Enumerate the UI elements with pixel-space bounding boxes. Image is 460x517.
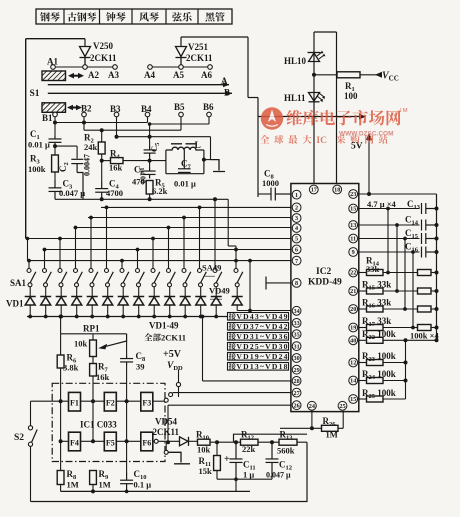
contact B5 [179, 112, 184, 117]
junction bus end [435, 338, 439, 342]
wire [383, 290, 418, 292]
IC2 pin 19 [349, 323, 358, 332]
label all 2CK11 [144, 333, 186, 343]
svg-text:A6: A6 [201, 70, 212, 80]
svg-text:......: ...... [210, 293, 222, 302]
svg-text:0.047 μ: 0.047 μ [59, 188, 85, 198]
wire A4-A6 row [150, 66, 210, 68]
svg-text:31: 31 [294, 343, 300, 350]
svg-text:15: 15 [350, 206, 356, 213]
wire RP1-R7 [92, 357, 94, 364]
junction [105, 206, 109, 210]
resistor R7 [90, 364, 97, 377]
wire R8 bottom [60, 485, 62, 492]
junction [125, 439, 129, 443]
wire V251 top [181, 36, 248, 38]
label 钢琴 [40, 12, 60, 21]
svg-text:470: 470 [132, 177, 145, 187]
wire V250 anode [84, 39, 86, 47]
svg-text:VD25~VD30: VD25~VD30 [236, 342, 287, 351]
junction [198, 206, 202, 210]
switch SA48 [213, 269, 217, 273]
contact A6 [208, 65, 213, 70]
IC2 pin 26 [292, 401, 301, 410]
capacitor C12 [266, 442, 279, 479]
junction pin24 [310, 426, 314, 430]
wire cap to resistor link [412, 252, 414, 328]
junction [248, 309, 252, 313]
svg-text:B6: B6 [203, 102, 214, 112]
svg-text:V251: V251 [188, 42, 208, 52]
wire bus B3 long [117, 136, 211, 138]
resistor R15 33k [367, 288, 384, 294]
wire key column 2 [44, 250, 46, 269]
svg-text:100: 100 [344, 91, 358, 101]
watermark text [287, 110, 401, 126]
wire to R1 [314, 74, 378, 76]
junction bus [435, 289, 439, 293]
resistor 100k (column) [418, 306, 432, 312]
junction diode bus [183, 315, 187, 319]
diode VD1 [29, 287, 31, 297]
svg-text:+: + [224, 454, 230, 465]
contact A3 [113, 65, 118, 70]
svg-text:0.047 μ: 0.047 μ [266, 471, 291, 480]
resistor 100k (column) [418, 288, 432, 294]
svg-text:......: ...... [203, 270, 215, 279]
junction C12 [270, 440, 274, 444]
junction C1/R3 [53, 144, 57, 148]
slider direction arrow b [67, 105, 82, 111]
junction diode bus [121, 315, 125, 319]
svg-text:B1: B1 [42, 113, 53, 123]
junction C8 column [125, 399, 129, 403]
wire R2-C4 [101, 154, 103, 182]
switch SA12 [198, 269, 202, 273]
flip-flop F6 [141, 432, 153, 451]
resistor R17 33k [367, 325, 384, 331]
wire B2 stub [83, 117, 85, 130]
Vcc arrowhead [375, 72, 382, 78]
IC2 pin 17 [309, 185, 318, 194]
label box 接VD19~VD24 [228, 353, 289, 361]
junction R11 [215, 440, 219, 444]
selector divider [131, 9, 133, 24]
wire R11 top [216, 442, 218, 455]
svg-text:VD19~VD24: VD19~VD24 [236, 352, 287, 361]
svg-text:A1: A1 [47, 57, 58, 67]
junction bus [435, 326, 439, 330]
wire [383, 272, 418, 274]
svg-text:6.2k: 6.2k [152, 186, 168, 196]
slider direction arrow [68, 73, 84, 79]
junction diode bus [44, 315, 48, 319]
wire key column 8 [137, 250, 139, 269]
wire R6 lead [60, 334, 62, 355]
IC U: IC2 KDD-49 body [291, 184, 359, 412]
wire pin7 branch down [249, 261, 251, 311]
switch SA1 [27, 269, 31, 273]
capacitor C15 [422, 233, 437, 244]
svg-text:25: 25 [339, 403, 345, 410]
wire pin4 line [74, 227, 291, 229]
switch SA10 [167, 269, 171, 273]
svg-text:21: 21 [350, 288, 356, 295]
wire left vertical pin5-pin7 [27, 239, 29, 261]
LED HL10 [308, 51, 326, 62]
diode VD13 [215, 287, 217, 297]
label 古钢琴 [68, 12, 97, 21]
IC2 pin 40 [349, 336, 358, 345]
contact F3 out [164, 398, 168, 402]
svg-text:100k: 100k [28, 164, 46, 174]
wire [383, 308, 418, 310]
junction HL mid [312, 73, 316, 77]
svg-text:1M: 1M [67, 480, 79, 490]
switch S2 blade [32, 430, 38, 443]
wire to pin27 [173, 392, 291, 394]
wire bus1 filter common [55, 198, 228, 200]
junction diode bus [59, 315, 63, 319]
contact B6 [207, 112, 212, 117]
slider contact S1a (hatched) [42, 71, 66, 81]
contact B1 [53, 112, 58, 117]
wire key column 9 [152, 239, 154, 269]
wire [383, 398, 406, 400]
svg-text:0.01 μ: 0.01 μ [174, 179, 196, 189]
junction [125, 490, 129, 494]
wire down to C9 [257, 98, 259, 198]
junction R5 [148, 197, 152, 201]
wire RP1 top [61, 333, 127, 335]
contact A2 [83, 65, 88, 70]
contact pin27 feed [169, 393, 173, 397]
wire C9 lead [258, 193, 271, 195]
wire bus B3 drop [210, 137, 212, 160]
junction diode bus [75, 315, 79, 319]
svg-text:22k: 22k [242, 444, 256, 454]
switch SA49 [234, 269, 238, 273]
wire S2 lower [30, 446, 32, 501]
svg-text:18: 18 [334, 187, 340, 194]
contact key [164, 450, 168, 454]
resistor R1 [337, 72, 360, 78]
contact B2 [82, 112, 87, 117]
wire R4 to C5/C6 node [123, 160, 150, 162]
svg-text:26: 26 [294, 402, 300, 409]
wire key column 13 [214, 199, 216, 268]
IC2 pin 20 [349, 305, 358, 314]
wire S1 rail B [48, 92, 232, 94]
diode VD2 [45, 287, 47, 297]
wire V251 anode [180, 37, 182, 47]
capacitor C11 [230, 442, 243, 479]
svg-text:27: 27 [294, 390, 300, 397]
junction R2 top [100, 128, 104, 132]
IC2 pin 25 [338, 401, 347, 410]
junction diode bus [106, 315, 110, 319]
wire [431, 308, 437, 310]
switch SA11 [182, 269, 186, 273]
wire C11 to common [235, 479, 237, 491]
svg-text:F4: F4 [70, 438, 79, 447]
wire B4 stub [147, 117, 149, 123]
wire diode bus [27, 316, 239, 318]
IC2 pin 1 [292, 190, 301, 199]
junction bus [435, 237, 439, 241]
resistor R3 [52, 155, 59, 172]
wire R7 to F-row [92, 376, 94, 441]
wire pin25 down [342, 412, 344, 429]
wire R11 bottom [216, 471, 218, 480]
resistor R9 [90, 471, 97, 485]
flip-flop F1 [69, 392, 81, 411]
svg-text:12: 12 [350, 360, 356, 367]
selector divider [63, 9, 65, 24]
IC2 pin 13 [349, 221, 358, 230]
wire pin line to C16 [359, 251, 420, 253]
svg-text:13: 13 [350, 222, 356, 229]
svg-text:35: 35 [294, 331, 300, 338]
wire VD49 to pin34 [237, 310, 291, 312]
wire [149, 157, 151, 167]
wire [54, 172, 56, 180]
IC2 pin 6 [292, 245, 301, 254]
junction [151, 237, 155, 241]
wire B1 column [54, 117, 56, 135]
IC2 pin 28 [292, 377, 301, 386]
svg-text:1 μ: 1 μ [243, 470, 254, 480]
wire right bus [436, 194, 438, 340]
wire B6 stub [208, 117, 210, 124]
wire left frame vertical to pin5 line [25, 39, 27, 239]
svg-text:4700: 4700 [106, 188, 123, 198]
wire contact stub [165, 443, 167, 450]
contact VDD [176, 382, 180, 386]
IC2 pin 35 [292, 330, 301, 339]
resistor R10 [198, 439, 211, 445]
resistor 100k (column) [418, 325, 432, 331]
wire V251 feed down [247, 37, 249, 98]
svg-text:33k: 33k [366, 264, 380, 274]
diode V251 [176, 47, 187, 68]
diode VD11 [184, 287, 186, 297]
capacitor C7 [178, 150, 191, 172]
wire key column 1 [28, 261, 30, 269]
switch SA7 [120, 269, 124, 273]
svg-text:A2: A2 [88, 70, 99, 80]
svg-text:10k: 10k [197, 445, 211, 455]
svg-text:F3: F3 [142, 399, 151, 408]
svg-text:10k: 10k [74, 339, 88, 349]
wire key column 11 [183, 218, 185, 269]
junction bus [435, 271, 439, 275]
wire C2 lead [76, 146, 78, 158]
junction [248, 259, 252, 263]
svg-text:33: 33 [294, 320, 300, 327]
wire [383, 339, 437, 341]
junction bus [435, 223, 439, 227]
wire [431, 272, 437, 274]
svg-text:VD37~VD42: VD37~VD42 [236, 322, 287, 331]
LED HL11 [309, 93, 326, 103]
wire cap to resistor link [396, 225, 398, 291]
wire S2 to F1 [31, 400, 69, 402]
capacitor C10 [120, 473, 133, 492]
capacitor C8 [120, 356, 133, 366]
svg-text:A4: A4 [144, 70, 155, 80]
wire arrowhead [359, 114, 366, 120]
wire pin line to C14 [359, 224, 420, 226]
svg-text:29: 29 [294, 367, 300, 374]
svg-text:IC1 C033: IC1 C033 [80, 420, 117, 430]
junction [27, 259, 31, 263]
wire A1-A3 row [53, 66, 115, 68]
svg-text:TM: TM [399, 108, 408, 114]
wire pin28 line [203, 380, 291, 382]
wire F1-F2 [81, 400, 105, 402]
wire key column 10 [168, 228, 170, 269]
svg-text:A5: A5 [173, 70, 184, 80]
wire key column 4 [75, 228, 77, 269]
svg-text:0.1 μ: 0.1 μ [134, 480, 152, 490]
junction [89, 216, 93, 220]
flip-flop F4 [69, 432, 81, 451]
svg-text:0.01 μ: 0.01 μ [28, 140, 50, 150]
svg-text:1: 1 [295, 192, 298, 199]
wire HL right [336, 32, 338, 117]
svg-text:VD13~VD18: VD13~VD18 [236, 362, 287, 371]
wire pin6 line [43, 249, 291, 251]
junction [58, 237, 62, 241]
IC1 dash-dot box [52, 383, 165, 461]
wire VD54 to R10 [189, 440, 198, 442]
resistor R22 100k [367, 337, 384, 343]
svg-text:KDD-49: KDD-49 [308, 278, 342, 288]
svg-text:VD43~VD49: VD43~VD49 [236, 312, 287, 321]
selector divider [165, 9, 167, 24]
IC2 pin 27 [292, 388, 301, 397]
watermark logo circle [261, 107, 283, 129]
wire F2-F3 [116, 400, 141, 402]
wire B3 stub [116, 117, 118, 137]
diode VD7 [122, 287, 124, 297]
capacitor C4 [95, 182, 108, 200]
flip-flop F3 [141, 392, 153, 411]
switch SA9 [151, 269, 155, 273]
resistor R16 33k [367, 306, 384, 312]
junction R4 [100, 159, 104, 163]
instrument selector box [36, 9, 232, 24]
svg-text:560k: 560k [277, 446, 295, 456]
wire to R16 [359, 308, 367, 310]
svg-text:2CK11: 2CK11 [161, 333, 186, 343]
IC2 pin 3 [292, 214, 301, 223]
wire pin2 line [101, 206, 291, 208]
diode V250 [80, 47, 91, 68]
svg-text:40: 40 [350, 338, 356, 345]
contact A1 [51, 65, 56, 70]
svg-text:19: 19 [350, 325, 356, 332]
wire pin7 line [28, 260, 291, 262]
wire [431, 327, 437, 329]
svg-text:34: 34 [294, 308, 300, 315]
contact A5 [179, 65, 184, 70]
svg-text:VD1-49: VD1-49 [149, 321, 179, 331]
svg-text:9: 9 [352, 249, 355, 256]
svg-text:16k: 16k [109, 163, 123, 173]
wire pin line to C13 [359, 208, 420, 210]
svg-text:A: A [221, 76, 228, 86]
wire to F4 [61, 440, 69, 442]
wire to R15 [359, 290, 367, 292]
wire pin23 line [359, 193, 437, 195]
svg-text:B: B [224, 88, 230, 98]
svg-text:2CK11: 2CK11 [186, 53, 213, 63]
wire pin18 feed [336, 117, 338, 188]
flip-flop F2 [104, 392, 116, 411]
wire pin5 line [26, 238, 291, 240]
wire to tank [150, 160, 166, 162]
wire [431, 290, 437, 292]
wire pin line to C15 [359, 238, 420, 240]
wire VDD contact lower [178, 387, 180, 397]
watermark slogan [260, 135, 387, 146]
junction bus to RP1 [59, 315, 63, 319]
capacitor C14 [422, 220, 437, 231]
capacitor C1 [49, 135, 62, 146]
resistor R12 [241, 439, 259, 445]
selector divider [99, 9, 101, 24]
wire F5-F6 [116, 440, 141, 442]
wire R9 bottom [92, 485, 94, 492]
wire to SA49 column [228, 245, 236, 247]
diode VD3 [60, 287, 62, 297]
switch SA8 [136, 269, 140, 273]
junction [91, 439, 95, 443]
wire R3 lead [54, 146, 56, 155]
resistor R5 [146, 181, 153, 195]
junction [91, 489, 95, 493]
svg-text:0.0047: 0.0047 [83, 154, 92, 176]
junction [166, 440, 170, 444]
IC2 pin 8 [292, 279, 301, 288]
wire [383, 362, 406, 364]
junction [53, 121, 57, 125]
wire pin24 down [311, 410, 313, 428]
resistor R25 100k [367, 396, 384, 402]
diode VD6 [107, 287, 109, 297]
svg-text:22: 22 [350, 270, 356, 277]
label 钟琴 [106, 12, 126, 21]
switch SA4 [74, 269, 78, 273]
wire HL left / pin17 feed [313, 32, 315, 187]
wire F6 out [152, 440, 154, 442]
IC2 pin 23 [349, 190, 358, 199]
switch SA6 [105, 269, 109, 273]
wire bus B1-B4 [55, 122, 148, 124]
junction [148, 135, 152, 139]
svg-text:2CK11: 2CK11 [90, 53, 117, 63]
wire to R17 [359, 327, 367, 329]
contact F6 out [154, 439, 158, 443]
IC2 pin 24 [308, 401, 317, 410]
diode VD10 [169, 287, 171, 297]
wire S1 rail A [48, 84, 229, 86]
junction [182, 216, 186, 220]
IC2 pin 11 [349, 234, 358, 243]
wire B5 stub [180, 117, 182, 130]
